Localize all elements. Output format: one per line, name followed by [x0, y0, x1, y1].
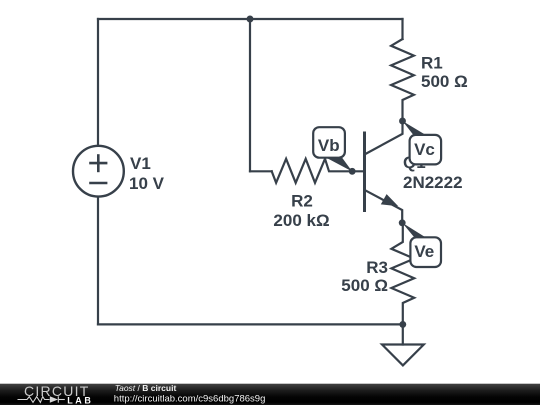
- svg-text:R3: R3: [366, 258, 388, 277]
- svg-text:R1: R1: [421, 54, 443, 73]
- svg-text:10 V: 10 V: [129, 174, 165, 193]
- svg-text:LAB: LAB: [67, 395, 93, 405]
- svg-text:500 Ω: 500 Ω: [421, 72, 468, 91]
- svg-text:R2: R2: [291, 192, 313, 211]
- svg-text:V1: V1: [130, 154, 151, 173]
- svg-text:Vb: Vb: [318, 136, 340, 155]
- svg-text:Vc: Vc: [414, 140, 435, 159]
- svg-text:200 kΩ: 200 kΩ: [273, 211, 329, 230]
- svg-text:Ve: Ve: [414, 242, 434, 261]
- svg-text:2N2222: 2N2222: [403, 173, 463, 192]
- svg-text:http://circuitlab.com/c9s6dbg7: http://circuitlab.com/c9s6dbg786s9g: [114, 393, 266, 404]
- svg-text:500 Ω: 500 Ω: [341, 276, 388, 295]
- svg-text:Taost / B circuit: Taost / B circuit: [115, 383, 177, 393]
